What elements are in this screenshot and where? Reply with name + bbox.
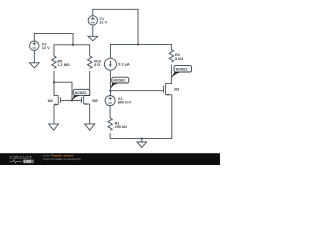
wire V1 to ground xyxy=(92,25,94,36)
svg-text:NODE1: NODE1 xyxy=(176,67,188,71)
wire M1 gate xyxy=(110,90,163,92)
svg-text:http://circuitlab.com/c/dpkx26: http://circuitlab.com/c/dpkx26 xyxy=(44,157,82,161)
resistor R10 xyxy=(87,56,91,69)
wire V3 to ground xyxy=(33,50,35,63)
node junction dot R9-gate tie xyxy=(53,81,55,83)
svg-text:M5: M5 xyxy=(92,99,97,103)
wire ground stem xyxy=(141,139,143,142)
wire M2 gate to M5 gate xyxy=(60,99,81,101)
resistor R1 xyxy=(108,118,112,131)
svg-text:LAB: LAB xyxy=(24,160,31,164)
svg-text:M1: M1 xyxy=(174,87,179,91)
svg-text:NODE1: NODE1 xyxy=(75,91,87,95)
voltage source V1 xyxy=(88,16,97,25)
wire M2 source to ground xyxy=(53,105,55,124)
svg-text:NODE2: NODE2 xyxy=(113,79,125,83)
wire left supply rail xyxy=(54,45,90,56)
wire R9 bottom to M2 drain xyxy=(54,71,58,95)
junction dot bottom ground node xyxy=(141,138,143,140)
node flag NODE2 xyxy=(110,77,129,89)
junction dot M1 gate tap xyxy=(109,90,111,92)
resistor R9 xyxy=(52,56,56,69)
ammeter AM1 xyxy=(104,58,116,70)
transistor M1 (NMOS) xyxy=(165,84,167,95)
wire R10 bottom to M5 drain xyxy=(84,71,90,96)
footer bar xyxy=(0,153,220,165)
wire V3 top riser to rail xyxy=(34,33,73,44)
svg-text:9.3 µA: 9.3 µA xyxy=(118,62,130,66)
ground under V1 xyxy=(88,36,98,41)
wire V1 top to rail riser xyxy=(93,9,138,44)
wire ammeter to V2 xyxy=(109,70,111,95)
node flag NODE1 left xyxy=(72,89,90,100)
wire V2 bottom to R1 xyxy=(109,106,111,118)
svg-text:1.2 MΩ: 1.2 MΩ xyxy=(57,63,69,67)
svg-text:M2: M2 xyxy=(48,99,53,103)
junction dot V1 rail xyxy=(137,43,139,45)
resistor R2 xyxy=(169,50,173,63)
svg-text:250 kΩ: 250 kΩ xyxy=(115,125,128,129)
node flag NODE1 right xyxy=(171,66,191,78)
wire drain-gate tie xyxy=(54,82,72,100)
ground bottom xyxy=(137,142,147,147)
wire R1 bottom xyxy=(109,133,111,139)
voltage source V3 xyxy=(30,41,39,50)
voltage source V2 xyxy=(105,96,115,106)
node junction dot gate wire xyxy=(71,99,73,101)
transistor M2 (NMOS mirrored) xyxy=(57,95,59,104)
svg-text:12 V: 12 V xyxy=(42,46,50,50)
wire M1 source down to bottom rail xyxy=(110,95,172,139)
wire M5 source to ground xyxy=(89,104,91,124)
wire right supply rail xyxy=(110,44,171,58)
transistor M5 (NMOS) xyxy=(83,95,85,104)
junction dot V3 rail xyxy=(72,44,74,46)
wire R2 bottom to M1 drain xyxy=(166,65,172,84)
ground under V3 xyxy=(30,63,40,68)
ground under M2 xyxy=(49,124,59,130)
svg-text:8 Ω: 8 Ω xyxy=(94,63,100,67)
svg-text:12 V: 12 V xyxy=(99,21,107,25)
svg-text:800 mV: 800 mV xyxy=(118,101,132,105)
svg-text:8 kΩ: 8 kΩ xyxy=(175,57,183,61)
ground under M5 xyxy=(85,124,95,130)
